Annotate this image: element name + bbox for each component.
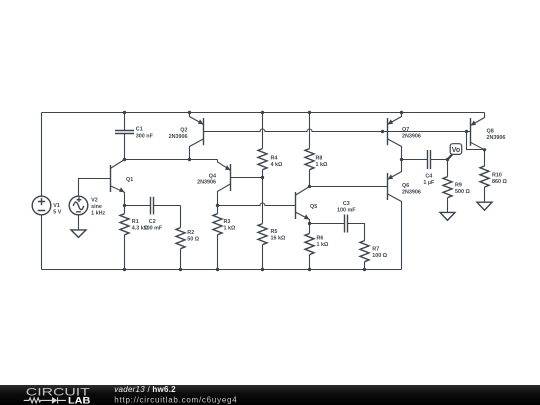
ground under V2: [71, 230, 86, 238]
svg-text:Q6: Q6: [402, 183, 409, 189]
svg-text:1 kΩ: 1 kΩ: [224, 226, 236, 232]
capacitor C2: [151, 197, 181, 215]
svg-text:R3: R3: [224, 219, 231, 225]
svg-text:100 Ω: 100 Ω: [372, 253, 387, 259]
wire row C1 bottom to Q4 emitter: [125, 159, 218, 161]
resistor R2: [176, 206, 185, 270]
svg-text:C4: C4: [425, 174, 432, 180]
resistor R5: [258, 224, 267, 270]
CircuitLab logo wordmark: [24, 387, 91, 405]
ground under R9: [440, 212, 455, 220]
svg-text:V2: V2: [91, 198, 98, 204]
label R2 50 Ohm: [187, 230, 199, 243]
svg-text:LAB: LAB: [68, 395, 91, 405]
svg-text:50 Ω: 50 Ω: [187, 236, 199, 242]
svg-text:5 V: 5 V: [53, 209, 61, 215]
svg-text:Q7: Q7: [402, 127, 409, 133]
svg-text:Vo: Vo: [452, 147, 460, 154]
svg-text:V1: V1: [53, 203, 60, 209]
resistor R6: [305, 224, 314, 270]
resistor R7: [360, 241, 369, 270]
svg-text:R4: R4: [271, 155, 278, 161]
label C1 300 nF: [136, 127, 154, 140]
label Q1: [126, 177, 133, 183]
label R4 4 kOhm: [271, 155, 283, 168]
resistor R8 with top feed: [305, 113, 314, 187]
svg-text:Q1: Q1: [126, 177, 133, 183]
svg-text:Q4: Q4: [209, 173, 216, 179]
wire Q5 emitter row to C3: [310, 223, 345, 225]
resistor R9: [443, 160, 452, 213]
svg-text:vader13 / hw6.2: vader13 / hw6.2: [114, 385, 176, 394]
wire R1 top node row to C2: [125, 205, 151, 207]
footer bar: [0, 385, 540, 405]
svg-text:16 kΩ: 16 kΩ: [271, 236, 286, 242]
label R5 16 kOhm: [271, 229, 286, 242]
label V1 5 V: [53, 203, 61, 216]
footer title text vader13 / hw6.2: [114, 385, 176, 394]
label C3 100 mF: [337, 201, 356, 214]
svg-text:R9: R9: [455, 183, 462, 189]
svg-text:R10: R10: [492, 173, 502, 179]
footer url text: [114, 395, 237, 404]
svg-text:1 µF: 1 µF: [423, 180, 435, 186]
ground under R10: [477, 202, 492, 210]
svg-text:1 kΩ: 1 kΩ: [316, 162, 328, 168]
svg-text:500 Ω: 500 Ω: [455, 189, 470, 195]
label Q2 2N3906: [169, 128, 188, 140]
svg-text:Q2: Q2: [180, 128, 187, 134]
wire R4 bottom to R5 top: [262, 178, 264, 224]
wire V2 bottom lead: [78, 215, 80, 230]
wire top supply rail: [42, 112, 485, 114]
svg-text:1 kHz: 1 kHz: [91, 210, 105, 216]
capacitor C1: [115, 113, 134, 160]
wire base bus rail (Q2 to Q7 to Q8) with hops: [204, 129, 471, 132]
svg-text:4 kΩ: 4 kΩ: [271, 162, 283, 168]
svg-text:2N3906: 2N3906: [487, 135, 506, 141]
svg-text:100 mF: 100 mF: [337, 208, 356, 214]
svg-text:300 nF: 300 nF: [136, 133, 154, 139]
svg-text:C1: C1: [136, 127, 143, 133]
label Q4 2N3906: [197, 173, 216, 185]
wire V1 top lead: [41, 113, 43, 197]
wire Q7 collector row to C4: [402, 159, 428, 161]
label R6 1 kOhm: [317, 236, 329, 249]
label R8 1 kOhm: [316, 155, 328, 168]
svg-text:2N3906: 2N3906: [402, 190, 421, 196]
wire V1 bottom lead: [41, 215, 43, 270]
wire Q4 collector row to Q5 base with hop: [218, 203, 296, 205]
svg-text:C3: C3: [343, 201, 350, 207]
resistor R4 with top feed: [258, 113, 267, 178]
label R10 860 Ohm: [492, 173, 507, 186]
transistor Q6: [388, 160, 402, 270]
resistor R1: [120, 206, 129, 270]
label Q8 2N3906: [487, 129, 506, 141]
capacitor C3: [345, 215, 365, 241]
svg-text:2N3906: 2N3906: [197, 179, 216, 185]
label Q7 2N3906: [402, 127, 421, 139]
label Q6 2N3906: [402, 183, 421, 195]
resistor R3: [213, 206, 222, 270]
label R1 4.3 kOhm: [132, 219, 149, 232]
svg-text:2N3906: 2N3906: [402, 134, 421, 140]
capacitor C4: [428, 150, 448, 169]
svg-text:R8: R8: [316, 155, 323, 161]
svg-text:R5: R5: [271, 229, 278, 235]
wire bottom ground rail: [42, 269, 402, 271]
transistor Q2: [190, 113, 204, 160]
label R9 500 Ohm: [455, 183, 470, 196]
svg-text:Q8: Q8: [487, 129, 494, 135]
svg-text:sine: sine: [91, 204, 102, 210]
node flag Vo: [448, 144, 462, 160]
svg-text:R7: R7: [372, 247, 379, 253]
svg-text:http://circuitlab.com/c6uyeg4: http://circuitlab.com/c6uyeg4: [114, 395, 237, 404]
label V2 sine 1 kHz: [91, 198, 105, 217]
svg-text:100 mF: 100 mF: [144, 226, 163, 232]
svg-text:R6: R6: [317, 236, 324, 242]
junction node dots: [123, 111, 486, 271]
label Q5: [310, 204, 317, 210]
wire Q5 collector row to Q6 base: [310, 186, 388, 188]
label C4 1 uF: [423, 174, 435, 187]
transistor Q1: [111, 160, 125, 206]
wire V2 top lead to Q1 base: [79, 179, 111, 197]
svg-text:C2: C2: [149, 219, 156, 225]
svg-text:R1: R1: [132, 219, 139, 225]
svg-text:860 Ω: 860 Ω: [492, 179, 507, 185]
label R7 100 Ohm: [372, 247, 387, 260]
svg-text:1 kΩ: 1 kΩ: [317, 242, 329, 248]
svg-text:Q5: Q5: [310, 204, 317, 210]
transistor Q4: [218, 160, 263, 206]
transistor Q8 diode-connected: [467, 113, 485, 150]
svg-text:2N3906: 2N3906: [169, 134, 188, 140]
voltage source V2 sine: [69, 196, 88, 215]
transistor Q5: [296, 187, 310, 224]
label C2 100 mF: [144, 219, 163, 232]
label R3 1 kOhm: [224, 219, 236, 232]
transistor Q7: [388, 113, 402, 160]
resistor R10: [480, 150, 489, 202]
voltage source V1: [32, 196, 51, 215]
svg-text:R2: R2: [187, 230, 194, 236]
